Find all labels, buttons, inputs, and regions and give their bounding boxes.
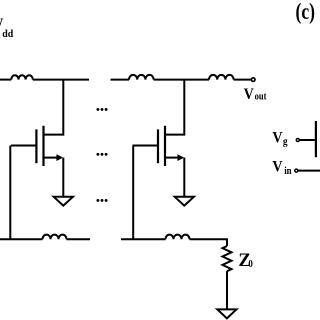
svg-text:in: in	[284, 165, 292, 177]
label (c)	[296, 0, 315, 24]
resistor Z0	[223, 246, 232, 271]
inductor L1	[11, 75, 32, 79]
svg-text:out: out	[255, 92, 268, 103]
wire L4 to rail gap	[67, 238, 91, 240]
node Vout terminal	[251, 78, 255, 82]
wire source M2 with arrow	[166, 154, 185, 196]
inductor L3	[209, 75, 234, 80]
wire input rail left end to L4	[0, 238, 43, 240]
wire L3 to Vout terminal	[234, 79, 251, 81]
svg-text:dd: dd	[2, 28, 13, 40]
wire gate M2 to input rail	[132, 146, 134, 241]
ellipsis (repeated stages, middle)	[96, 153, 107, 156]
node Vg terminal	[296, 139, 299, 142]
wire L2 to L3 (through M2 drain node)	[154, 79, 209, 81]
inductor L4	[43, 235, 67, 240]
transistor M1 (NMOS)	[11, 126, 44, 166]
transistor gate bar (subfigure d, clipped at right edge)	[315, 121, 317, 157]
svg-text:V: V	[272, 159, 282, 176]
inductor L5	[166, 235, 190, 240]
label Vin	[272, 159, 292, 177]
wire L5 to resistor Z0	[190, 239, 228, 246]
svg-text:V: V	[244, 86, 254, 103]
wire gate M1 to input rail	[9, 146, 11, 241]
transistor M2 (NMOS)	[133, 126, 166, 166]
ellipsis (repeated stages, top)	[96, 108, 107, 111]
wire Vdd rail right segment start to L2	[111, 79, 130, 81]
wire Vg terminal to gate bar (subfigure d, clipped)	[300, 139, 315, 141]
wire Z0 to ground	[226, 271, 228, 309]
wire Vin terminal to right edge	[298, 170, 320, 172]
label Z0	[238, 250, 253, 271]
label Vout	[244, 86, 268, 103]
wire source M1 with arrow	[44, 154, 63, 196]
svg-text:V: V	[272, 130, 282, 147]
ground (M2 source)	[175, 197, 194, 206]
wire input rail right segment to L5	[121, 238, 166, 240]
label Vg	[272, 130, 287, 148]
wire Vdd rail left end to L1	[0, 79, 11, 81]
ground (Z0)	[217, 309, 236, 318]
inductor L2	[129, 75, 154, 80]
label Vdd (V clipped at left edge)	[0, 16, 13, 40]
wire L1 to rail gap	[33, 79, 89, 81]
svg-text:(c): (c)	[296, 0, 315, 24]
svg-text:0: 0	[248, 258, 253, 270]
svg-text:g: g	[283, 136, 288, 148]
wire drain M2 to Vdd rail	[166, 80, 185, 135]
wire drain M1 to Vdd rail	[44, 80, 63, 135]
ground (M1 source)	[54, 197, 73, 206]
node Vin terminal	[295, 169, 298, 172]
ellipsis (repeated stages, bottom)	[96, 199, 107, 202]
